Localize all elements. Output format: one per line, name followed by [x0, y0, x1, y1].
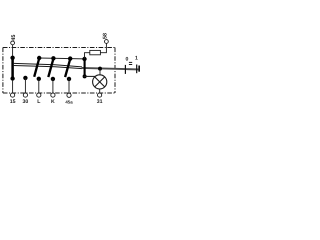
top contact line L1	[39, 57, 85, 60]
wire junction up to resistor	[85, 53, 90, 59]
wire resistor to terminal 58	[100, 43, 106, 52]
indicator lamp E1	[93, 75, 107, 89]
enclosure top edge	[3, 47, 115, 49]
slider rail upper line	[14, 63, 82, 67]
wire contact 4 to terminal K	[52, 79, 54, 93]
svg-text:K: K	[51, 99, 55, 105]
contact 3 fixed dot	[37, 77, 41, 81]
contact 3 top pivot dot	[37, 56, 41, 60]
resistor R1	[90, 50, 101, 54]
wire rail to lamp top	[99, 69, 101, 76]
wire contact 5 to terminal 45a	[68, 79, 70, 93]
contact bar junction to lamp feed	[84, 59, 86, 77]
terminal K circle	[51, 93, 55, 97]
terminal L circle	[37, 93, 41, 97]
contact 1 top junction dot	[10, 56, 14, 60]
contact 3 moving arm (open, tilted)	[34, 60, 39, 77]
contact 1 bottom contact dot	[10, 76, 14, 80]
svg-text:0: 0	[125, 56, 128, 62]
enclosure left edge	[2, 48, 4, 94]
detent dash lower	[129, 64, 132, 66]
wire contact 2 to terminal 30	[24, 78, 26, 93]
contact 5 moving arm (open, tilted)	[65, 60, 70, 77]
svg-text:15: 15	[10, 99, 16, 105]
lamp top junction dot on rail	[98, 67, 102, 71]
terminal 45a circle	[67, 93, 71, 97]
terminal 31 circle	[98, 93, 102, 97]
contact 1 moving bar (closed)	[11, 56, 14, 80]
svg-text:30: 30	[23, 99, 29, 105]
wire contact 3 to terminal L	[38, 79, 40, 93]
contact 4 moving arm (open, tilted)	[48, 60, 53, 77]
wire lamp bottom to terminal 31	[99, 89, 101, 93]
contact 5 fixed dot	[67, 77, 71, 81]
node junction resistor/lamp feed	[82, 57, 86, 61]
terminal 45 circle	[11, 41, 15, 45]
terminal 30 circle	[23, 93, 27, 97]
svg-text:45a: 45a	[65, 99, 73, 104]
svg-text:58: 58	[103, 33, 109, 39]
enclosure bottom edge	[3, 92, 115, 94]
svg-text:1: 1	[135, 56, 138, 62]
detent dash upper	[129, 61, 132, 63]
end stop mark	[138, 66, 140, 72]
position 0 tick	[124, 65, 126, 74]
contact 4 fixed dot	[51, 77, 55, 81]
wire to lamp left	[84, 75, 96, 77]
lamp cross stroke 1	[95, 77, 105, 87]
contact 4 top pivot dot	[51, 56, 55, 60]
contact 5 top pivot dot	[68, 56, 72, 60]
terminal 15 circle	[11, 93, 15, 97]
slider rail lower line	[14, 66, 82, 69]
contact 2 fixed dot	[23, 76, 27, 80]
wire 45 to contact 1	[12, 45, 14, 57]
svg-text:45: 45	[11, 35, 17, 41]
svg-text:L: L	[37, 99, 41, 105]
junction dot at lamp feed corner	[83, 74, 87, 78]
wire contact 1 to terminal 15	[12, 80, 14, 93]
enclosure housing (dash-dot border)	[3, 48, 115, 94]
svg-text:31: 31	[97, 99, 103, 105]
lamp cross stroke 2	[95, 77, 105, 87]
bus band merged	[82, 68, 139, 70]
enclosure right edge	[114, 48, 116, 94]
terminal 58 circle	[105, 40, 109, 44]
position 1 tick	[136, 65, 138, 74]
